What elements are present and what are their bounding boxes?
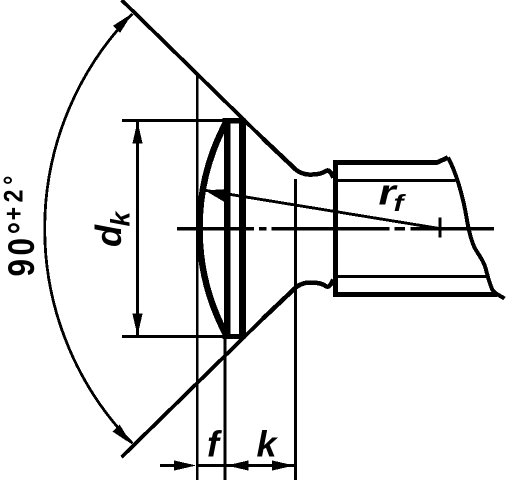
cone top edge diagonal (122, 0, 265, 141)
thread line top (338, 179, 456, 182)
shank top edge (333, 158, 448, 163)
head dome arc (200, 121, 227, 337)
svg-text:k: k (257, 424, 279, 465)
f dim line (199, 464, 225, 467)
rf center tick (439, 218, 442, 238)
head bottom flat (223, 334, 245, 339)
arc arrow top (113, 13, 132, 33)
svg-text:90°: 90° (1, 218, 42, 276)
label dk (88, 211, 136, 248)
svg-text:f: f (394, 190, 407, 216)
extension line f right k left (223, 338, 226, 480)
extension line k right (294, 179, 297, 480)
k arrow left (227, 460, 249, 470)
dk top extension line (122, 119, 243, 122)
break line (448, 158, 505, 299)
cone bottom edge diagonal (122, 317, 265, 458)
svg-text:+2°: +2° (0, 171, 29, 220)
neck fillet top (263, 139, 333, 178)
arc arrow bottom (113, 425, 132, 445)
dk dimension line (136, 122, 139, 335)
f dim tail line (160, 464, 178, 467)
svg-text:k: k (106, 211, 136, 227)
svg-text:f: f (207, 424, 222, 465)
head rim line 1 (224, 119, 230, 338)
rf arrow (205, 189, 230, 203)
extension line f left (196, 75, 199, 480)
dk bottom extension line (122, 335, 243, 338)
k dim line (227, 464, 295, 467)
f arrow (174, 460, 196, 470)
thread line bottom (338, 275, 487, 278)
label 90 deg plus 2 deg (0, 171, 42, 276)
head rim line 2 (239, 119, 246, 339)
centerline (177, 227, 494, 231)
head top flat (223, 118, 245, 123)
k arrow right (272, 460, 294, 470)
shank bottom edge (333, 292, 497, 297)
neck fillet bottom (263, 280, 333, 319)
shank left edge (333, 160, 338, 296)
rf radius line (205, 190, 440, 228)
dk arrow up (132, 122, 142, 144)
90 degree dimension arc (45, 14, 133, 444)
dk arrow down (132, 314, 142, 336)
